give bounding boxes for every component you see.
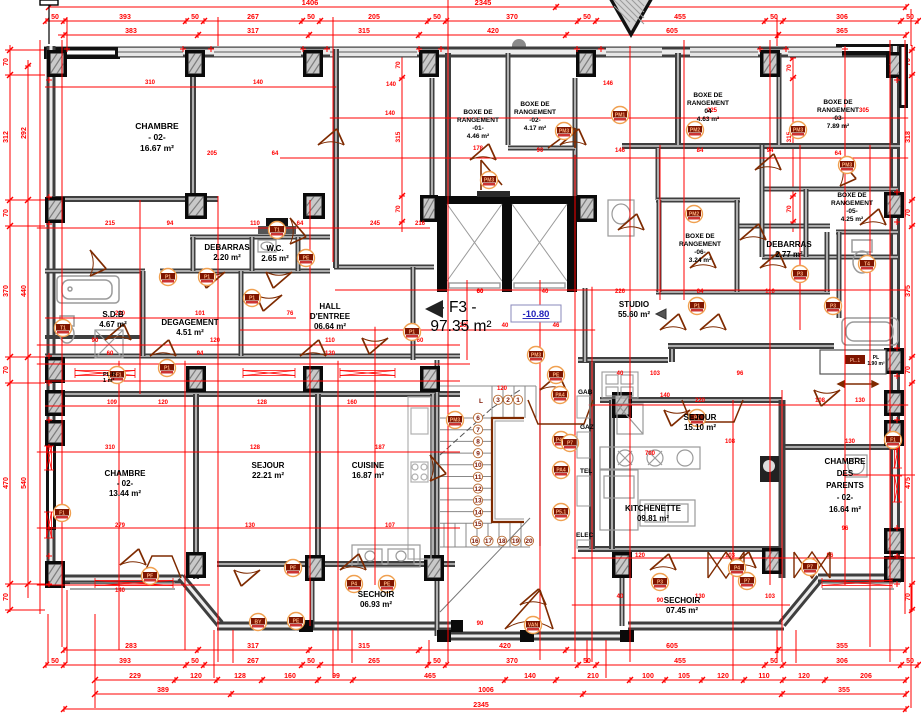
fridge sejour right — [617, 404, 643, 434]
svg-text:55.60 m²: 55.60 m² — [618, 310, 650, 319]
room label SDB — [99, 310, 127, 329]
svg-text:317: 317 — [247, 28, 259, 35]
svg-text:15.10 m²: 15.10 m² — [684, 423, 716, 432]
svg-text:120: 120 — [798, 673, 810, 680]
svg-text:40: 40 — [617, 594, 624, 600]
svg-text:P4: P4 — [734, 566, 740, 572]
dimension column left outer 70/312/70/370/70/470/70 — [7, 45, 13, 613]
svg-text:DEGAGEMENT: DEGAGEMENT — [161, 318, 218, 327]
svg-text:76: 76 — [287, 311, 294, 317]
svg-text:315: 315 — [358, 28, 370, 35]
svg-text:7: 7 — [476, 427, 480, 434]
svg-text:19: 19 — [512, 538, 520, 545]
svg-text:PE: PE — [293, 619, 300, 625]
stair center rail — [492, 418, 524, 522]
toilet left wc — [60, 316, 74, 343]
svg-text:06.64 m²: 06.64 m² — [314, 322, 346, 331]
svg-text:09.81 m²: 09.81 m² — [637, 514, 669, 523]
wall wc right — [296, 237, 301, 271]
svg-text:ELEC: ELEC — [576, 532, 594, 539]
room label SECHOIR right — [664, 596, 701, 615]
svg-text:226: 226 — [615, 289, 626, 295]
svg-text:70: 70 — [786, 64, 793, 72]
svg-text:8: 8 — [476, 439, 480, 446]
svg-text:BOXE DE: BOXE DE — [693, 92, 723, 99]
svg-text:W.C.: W.C. — [266, 244, 283, 253]
black caps bottom walls — [299, 620, 634, 642]
svg-text:140: 140 — [524, 673, 536, 680]
svg-text:PE: PE — [553, 373, 560, 379]
svg-text:70: 70 — [3, 366, 10, 374]
wall rooms top lower-left — [45, 391, 460, 397]
wall bottom sejour/cuisine/sechoir — [217, 622, 458, 631]
svg-text:312: 312 — [3, 131, 10, 143]
wall top facade — [44, 47, 908, 58]
bay window bottom-right detail — [822, 583, 894, 589]
svg-text:128: 128 — [257, 400, 268, 406]
svg-text:50: 50 — [906, 658, 914, 665]
wall boxe6/debarras top — [656, 198, 740, 203]
wall debarras2 right x827 — [825, 232, 830, 292]
wall boxe5 bottom — [762, 255, 898, 260]
svg-text:RANGEMENT: RANGEMENT — [514, 109, 556, 116]
svg-text:103: 103 — [765, 594, 776, 600]
black wall segment bottom chambre13 — [60, 575, 122, 584]
svg-text:40: 40 — [502, 323, 509, 329]
svg-text:PA4: PA4 — [555, 393, 565, 399]
svg-text:50: 50 — [191, 658, 199, 665]
room label BOXE 05 — [831, 192, 873, 223]
cabinet grid studio — [602, 372, 638, 398]
svg-text:318: 318 — [905, 131, 912, 143]
svg-text:50: 50 — [51, 658, 59, 665]
stair right thin edge — [539, 388, 541, 546]
svg-text:120: 120 — [158, 400, 169, 406]
svg-text:120: 120 — [210, 338, 221, 344]
svg-text:1 m²: 1 m² — [103, 377, 114, 384]
svg-text:70: 70 — [3, 58, 10, 66]
svg-text:475: 475 — [905, 477, 912, 489]
boxe01 door sill — [477, 191, 510, 197]
svg-text:PM3: PM3 — [450, 418, 461, 424]
wall left facade — [47, 46, 56, 588]
window symbols on right facade — [892, 440, 902, 468]
room label DEGAGEMENT — [161, 318, 218, 337]
svg-text:PM3: PM3 — [793, 128, 804, 134]
wall boxe5 top — [762, 187, 898, 192]
red crosses on facade at column edges — [64, 46, 70, 52]
svg-text:108: 108 — [725, 439, 736, 445]
svg-text:365: 365 — [836, 28, 848, 35]
placard PL room — [820, 350, 886, 374]
columns right facade — [884, 192, 904, 218]
svg-text:50: 50 — [191, 14, 199, 21]
svg-text:RANGEMENT: RANGEMENT — [679, 241, 721, 248]
svg-text:109: 109 — [107, 400, 118, 406]
wall bottom chambre parents — [818, 574, 901, 583]
svg-text:PE: PE — [303, 256, 310, 262]
wall elevator lobby right x585 — [583, 288, 588, 362]
svg-text:465: 465 — [424, 673, 436, 680]
column top-right corner — [886, 52, 908, 78]
svg-text:P7: P7 — [567, 441, 573, 447]
brown window X chambre parents bottom a — [708, 552, 744, 578]
black wall segment left lower — [46, 437, 56, 530]
svg-text:50: 50 — [51, 14, 59, 21]
arrow studio — [656, 309, 666, 319]
interior red dimension numbers — [92, 80, 870, 627]
wall top hall entree — [334, 265, 434, 270]
wall boxe04/03 divider x779 — [777, 53, 782, 145]
svg-text:PM3: PM3 — [531, 353, 542, 359]
svg-text:94: 94 — [167, 221, 174, 227]
boxe02 door leaf — [548, 128, 575, 148]
svg-text:267: 267 — [247, 658, 259, 665]
wall cuisine right x433 — [430, 394, 436, 564]
wall stair left x437 — [435, 360, 440, 636]
svg-text:50: 50 — [906, 14, 914, 21]
svg-text:120: 120 — [190, 673, 202, 680]
svg-text:16.87 m²: 16.87 m² — [352, 471, 384, 480]
svg-text:105: 105 — [678, 673, 690, 680]
svg-text:-10.80: -10.80 — [523, 309, 550, 320]
annotation tags — [160, 269, 177, 286]
witness lines from building to bottom dims — [48, 586, 911, 708]
svg-text:PF: PF — [290, 566, 296, 572]
svg-text:317: 317 — [247, 643, 259, 650]
svg-text:2345: 2345 — [473, 702, 489, 709]
room label BOXE 06 — [679, 233, 721, 264]
wall sechoir-right west x622 — [620, 578, 625, 626]
svg-text:97.35 m²: 97.35 m² — [430, 318, 491, 335]
svg-text:13: 13 — [474, 498, 482, 505]
svg-text:T1: T1 — [60, 326, 66, 332]
svg-text:RANGEMENT: RANGEMENT — [831, 200, 873, 207]
svg-text:355: 355 — [838, 687, 850, 694]
arrow F3 — [425, 300, 443, 318]
kitchenette sink block — [640, 500, 695, 526]
elevator shaft X left — [447, 204, 502, 281]
window symbols red in lower band — [75, 368, 135, 378]
svg-text:BY: BY — [255, 620, 263, 626]
svg-text:40: 40 — [617, 371, 624, 377]
svg-text:130: 130 — [855, 398, 866, 404]
svg-text:-03-: -03- — [832, 115, 844, 122]
door symbols maroon — [199, 272, 225, 288]
svg-text:KITCHENETTE: KITCHENETTE — [625, 504, 682, 513]
dimension row bottom chain of 50s — [43, 662, 921, 668]
wall boxe05 left inner x806 — [804, 189, 809, 257]
svg-text:BOXE DE: BOXE DE — [685, 233, 715, 240]
svg-text:PM2: PM2 — [690, 128, 701, 134]
svg-text:P3: P3 — [830, 304, 836, 310]
svg-text:SEJOUR: SEJOUR — [684, 413, 717, 422]
svg-text:70: 70 — [905, 209, 912, 217]
svg-text:265: 265 — [368, 658, 380, 665]
svg-text:605: 605 — [666, 643, 678, 650]
svg-text:4.17 m²: 4.17 m² — [524, 125, 547, 132]
svg-text:305: 305 — [859, 108, 870, 114]
svg-text:96: 96 — [737, 371, 744, 377]
svg-text:RANGEMENT: RANGEMENT — [687, 100, 729, 107]
wall center-left x336 — [333, 49, 339, 268]
svg-text:3.24 m²: 3.24 m² — [689, 257, 712, 264]
wall east of elevator x575 — [573, 78, 578, 199]
dimension row top chain of 50s — [43, 18, 921, 24]
svg-text:TEL: TEL — [580, 468, 592, 475]
svg-text:P3: P3 — [657, 580, 663, 586]
svg-text:2: 2 — [506, 397, 510, 404]
svg-text:- 02-: - 02- — [117, 479, 134, 488]
svg-text:P1: P1 — [694, 304, 700, 310]
wall chambre13 right x196 — [193, 394, 199, 579]
svg-text:PF: PF — [147, 574, 153, 580]
svg-text:160: 160 — [284, 673, 296, 680]
svg-text:- 02-: - 02- — [837, 493, 854, 502]
entrance door at stair bottom — [505, 590, 553, 629]
svg-text:P1: P1 — [204, 275, 210, 281]
svg-text:389: 389 — [157, 687, 169, 694]
section marker box top-left — [40, 0, 58, 44]
wall top sdb/bath — [45, 269, 145, 274]
svg-text:94: 94 — [767, 148, 774, 154]
svg-text:D'ENTREE: D'ENTREE — [310, 312, 351, 321]
svg-text:S.D.B: S.D.B — [102, 310, 124, 319]
kitchen counter cuisine — [352, 545, 420, 567]
svg-text:393: 393 — [119, 658, 131, 665]
wall debarras/wc divider — [250, 237, 255, 271]
room label KITCHENETTE — [625, 504, 682, 523]
svg-text:110: 110 — [325, 338, 335, 344]
cuisine vertical counter — [408, 397, 431, 559]
trapezoid door symbol chambre bottom-left — [142, 556, 181, 578]
elevator doors sills — [449, 283, 565, 288]
dimension column right — [909, 45, 915, 613]
svg-text:18: 18 — [498, 538, 506, 545]
wall boxe06 right x737 — [735, 200, 740, 292]
room label CUISINE — [352, 461, 385, 480]
svg-text:P1: P1 — [249, 296, 255, 302]
svg-text:90: 90 — [537, 148, 544, 154]
svg-text:2.20 m²: 2.20 m² — [213, 253, 241, 262]
room label CHAMBRE bottom-left — [105, 469, 147, 498]
wall right facade — [890, 46, 900, 582]
sink wc top — [258, 240, 276, 252]
columns left facade — [45, 197, 65, 223]
svg-text:370: 370 — [3, 285, 10, 297]
wall boxe6/debarras bottom — [656, 290, 830, 295]
room label BOXE 02 — [514, 101, 556, 132]
svg-text:60: 60 — [477, 289, 484, 295]
room label DEBARRAS right — [766, 240, 812, 259]
svg-text:215: 215 — [105, 221, 116, 227]
facade window overlays top — [118, 47, 183, 57]
svg-text:375: 375 — [905, 285, 912, 297]
wall chambre right x190 — [190, 53, 196, 199]
svg-text:90: 90 — [477, 621, 484, 627]
bathtub SDB left — [57, 276, 119, 303]
svg-text:10: 10 — [474, 462, 482, 469]
svg-text:PM2: PM2 — [689, 212, 700, 218]
svg-text:205: 205 — [368, 14, 380, 21]
wall below chambre top-left — [52, 196, 218, 202]
svg-text:64: 64 — [835, 151, 842, 157]
witness lines top dims — [67, 9, 911, 46]
svg-text:4.51 m²: 4.51 m² — [176, 328, 204, 337]
wall top-right corridor — [622, 143, 900, 149]
stair cut line diagonal — [440, 390, 520, 455]
wall top-right x675 — [675, 53, 681, 145]
wc toilet top — [266, 218, 288, 230]
svg-text:-02-: -02- — [529, 117, 541, 124]
svg-text:DEBARRAS: DEBARRAS — [204, 243, 250, 252]
svg-text:605: 605 — [666, 28, 678, 35]
svg-text:120: 120 — [325, 351, 336, 357]
stair treads upper flight — [440, 386, 536, 547]
washer sechoir right — [845, 455, 867, 477]
svg-text:07.45 m²: 07.45 m² — [666, 606, 698, 615]
wall bottom right sechoir — [628, 622, 784, 631]
labels gaz tel shaft — [576, 389, 594, 539]
svg-text:40: 40 — [542, 289, 549, 295]
svg-text:P5.1: P5.1 — [556, 510, 567, 516]
wall top studio band right — [668, 343, 834, 349]
svg-text:L: L — [479, 398, 483, 405]
wall boxe02 bottom y148 — [508, 146, 575, 151]
svg-text:64: 64 — [272, 151, 279, 157]
svg-text:BOXE DE: BOXE DE — [823, 99, 853, 106]
room label BOXE 01 — [457, 109, 499, 140]
svg-text:420: 420 — [487, 28, 499, 35]
svg-text:1: 1 — [516, 397, 520, 404]
svg-text:267: 267 — [247, 14, 259, 21]
svg-text:11: 11 — [475, 474, 482, 481]
svg-text:1006: 1006 — [478, 687, 494, 694]
svg-text:455: 455 — [674, 14, 686, 21]
svg-text:146: 146 — [603, 81, 614, 87]
elevator core walls black — [437, 196, 577, 288]
svg-text:CHAMBRE: CHAMBRE — [825, 457, 867, 466]
window symbol bottom-left bay — [95, 578, 173, 588]
svg-text:206: 206 — [860, 673, 872, 680]
svg-text:393: 393 — [119, 14, 131, 21]
svg-text:140: 140 — [115, 588, 126, 594]
svg-text:T1: T1 — [274, 228, 280, 234]
wall gaz shaft x592 — [589, 362, 595, 549]
north arrow triangle — [606, 0, 656, 38]
svg-text:SECHOIR: SECHOIR — [664, 596, 701, 605]
svg-text:16: 16 — [471, 538, 479, 545]
svg-text:310: 310 — [105, 445, 116, 451]
wall debarras2 top — [737, 224, 830, 229]
window symbols on left facade — [44, 446, 54, 470]
svg-text:RANGEMENT: RANGEMENT — [817, 107, 859, 114]
wall bottom sejour/cuisine — [217, 561, 455, 567]
kitchenette counters — [600, 447, 700, 530]
svg-text:210: 210 — [587, 673, 599, 680]
svg-text:RANGEMENT: RANGEMENT — [457, 117, 499, 124]
svg-text:100: 100 — [642, 673, 654, 680]
stair tread numbers — [470, 395, 533, 545]
svg-text:P3: P3 — [797, 272, 803, 278]
svg-text:279: 279 — [115, 523, 126, 529]
wall connector x658 — [656, 148, 661, 200]
svg-text:50: 50 — [307, 658, 315, 665]
svg-text:107: 107 — [385, 523, 396, 529]
room label SECHOIR left — [358, 590, 395, 609]
svg-text:130: 130 — [845, 439, 856, 445]
svg-text:P1: P1 — [165, 275, 171, 281]
studio bath fixtures right — [842, 240, 898, 345]
svg-text:310: 310 — [145, 80, 156, 86]
wall corridor bottom left wing — [45, 354, 460, 359]
svg-text:70: 70 — [395, 61, 402, 69]
svg-text:140: 140 — [660, 393, 671, 399]
wall top studio band left — [578, 357, 668, 363]
wall chambre parents left x782 — [779, 400, 786, 578]
svg-text:64: 64 — [697, 289, 704, 295]
bay window bottom-left detail — [70, 583, 175, 589]
svg-text:PL.1: PL.1 — [850, 358, 861, 364]
red horizontal axis lines — [40, 87, 915, 605]
trapezoid door symbol sejour-right wall a — [528, 400, 593, 424]
room label BOXE 03 — [817, 99, 859, 130]
wall boxe05 left x762 — [760, 145, 765, 257]
svg-text:13.44 m²: 13.44 m² — [109, 489, 141, 498]
brown window X chambre parents bottom b — [794, 552, 830, 578]
svg-text:14: 14 — [474, 509, 482, 516]
room label SEJOUR right — [684, 413, 717, 432]
svg-text:SEJOUR: SEJOUR — [252, 461, 285, 470]
svg-text:70: 70 — [395, 205, 402, 213]
wall boxe06 left x659 — [657, 200, 662, 292]
corridor vertical dim x402 — [399, 50, 405, 232]
dimension row bottom detail chain — [92, 677, 909, 683]
wall degagement right x241 — [239, 271, 244, 356]
gaz shaft meter boxes — [577, 396, 590, 548]
svg-text:120: 120 — [635, 553, 646, 559]
svg-text:GAB: GAB — [578, 389, 593, 396]
svg-text:PM3: PM3 — [484, 178, 495, 184]
wall hall right x413 — [411, 267, 416, 360]
svg-text:187: 187 — [375, 445, 386, 451]
svg-text:96: 96 — [842, 526, 849, 532]
svg-text:2.65 m²: 2.65 m² — [261, 254, 289, 263]
wall studio band jog — [669, 346, 675, 362]
svg-text:SECHOIR: SECHOIR — [358, 590, 395, 599]
wall studio bath left x839 — [837, 232, 842, 318]
wall chamfer bottom-left — [181, 577, 220, 624]
svg-text:P7: P7 — [744, 579, 750, 585]
svg-text:146: 146 — [615, 148, 626, 154]
svg-text:470: 470 — [3, 477, 10, 489]
svg-text:-06-: -06- — [694, 249, 706, 256]
svg-text:P1: P1 — [164, 366, 170, 372]
wall boxe01 left x448 — [445, 53, 451, 197]
svg-text:355: 355 — [836, 643, 848, 650]
svg-text:CUISINE: CUISINE — [352, 461, 385, 470]
svg-text:70: 70 — [3, 209, 10, 217]
svg-text:50: 50 — [433, 658, 441, 665]
wall sejour right x318 — [315, 394, 321, 564]
svg-text:245: 245 — [370, 221, 381, 227]
svg-text:103: 103 — [650, 371, 661, 377]
corridor vertical dim x793 — [790, 55, 796, 232]
svg-text:9: 9 — [476, 450, 480, 457]
svg-text:CHAMBRE: CHAMBRE — [135, 121, 179, 131]
svg-text:16.64 m²: 16.64 m² — [829, 505, 861, 514]
sliding door arrow — [838, 381, 878, 387]
